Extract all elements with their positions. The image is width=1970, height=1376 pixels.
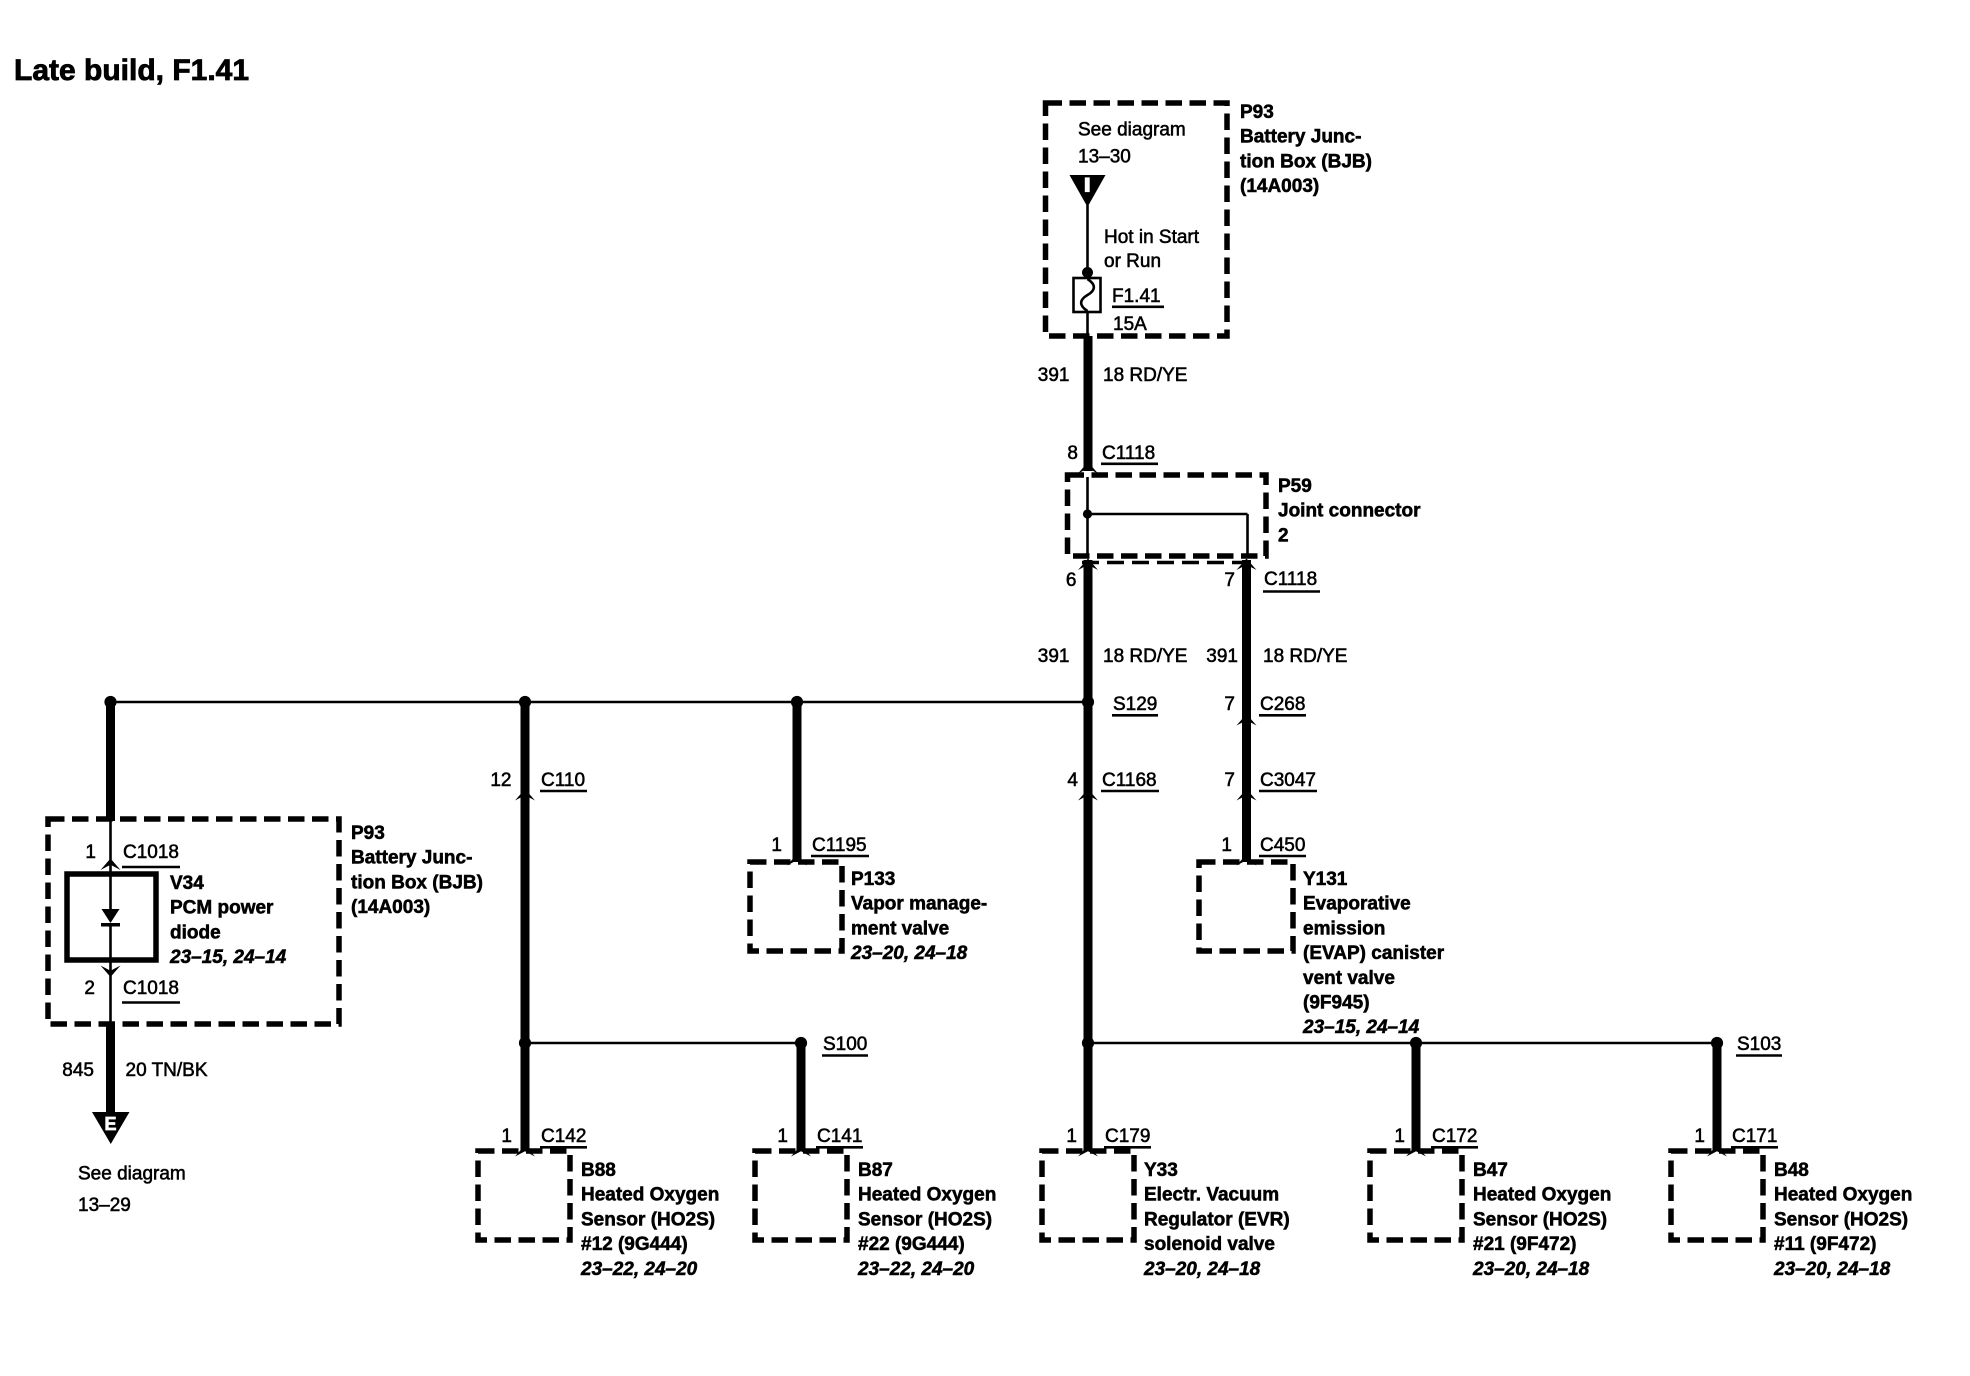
svg-text:391: 391 (1206, 646, 1238, 667)
svg-text:12: 12 (490, 770, 511, 791)
box B48 HO2S #11 (dashed) (1671, 1151, 1763, 1240)
label pin 8 connector C1118 (1067, 443, 1158, 464)
node inside P59 (1083, 509, 1092, 518)
svg-text:13–29: 13–29 (78, 1195, 131, 1216)
note See diagram 13-30 (1078, 120, 1186, 168)
wire out of diode (109, 927, 112, 1027)
svg-text:7: 7 (1224, 694, 1235, 715)
svg-text:7: 7 (1224, 570, 1235, 591)
svg-text:Heated Oxygen: Heated Oxygen (1473, 1185, 1611, 1206)
wire fuse to box bottom (1086, 312, 1089, 336)
box B88 HO2S #12 (dashed) (478, 1151, 570, 1240)
svg-text:2: 2 (84, 978, 95, 999)
splice S103 (1711, 1034, 1782, 1056)
connector C1018 pin 2 (arrow down) (84, 966, 180, 1003)
note Hot in Start or Run (1104, 227, 1200, 272)
label pin 7 C1118 (1224, 569, 1320, 592)
svg-text:8: 8 (1067, 443, 1078, 464)
svg-text:C142: C142 (541, 1126, 586, 1147)
wire triangle to fuse (1086, 205, 1089, 278)
svg-text:Evaporative: Evaporative (1303, 894, 1411, 915)
svg-text:C1018: C1018 (123, 842, 179, 863)
box Y131 EVAP canister vent valve (dashed) (1199, 862, 1293, 951)
node S103 left (1082, 1037, 1094, 1049)
connector C268 pin 7 (1224, 694, 1306, 726)
diode V34 symbol (101, 909, 120, 927)
svg-text:#21 (9F472): #21 (9F472) (1473, 1234, 1577, 1255)
box P59 Joint connector (dashed) (1068, 475, 1267, 556)
svg-text:845: 845 (62, 1060, 94, 1081)
svg-text:23–20, 24–18: 23–20, 24–18 (1143, 1259, 1261, 1280)
wire splice bus S100 (525, 1042, 801, 1045)
svg-text:#12 (9G444): #12 (9G444) (581, 1234, 688, 1255)
svg-text:F1.41: F1.41 (1112, 286, 1161, 307)
connector C110 pin 12 (490, 770, 587, 801)
label P93 BJB (top) (1240, 102, 1372, 197)
label circuit 391 18 RD/YE (1038, 365, 1188, 386)
svg-text:Y131: Y131 (1303, 869, 1348, 890)
svg-text:15A: 15A (1113, 314, 1147, 335)
svg-text:Joint connector: Joint connector (1278, 501, 1421, 522)
label P133 (850, 869, 987, 964)
svg-text:C1018: C1018 (123, 978, 179, 999)
box B47 HO2S #21 (dashed) (1370, 1151, 1462, 1240)
svg-text:18 RD/YE: 18 RD/YE (1103, 646, 1187, 667)
wire splice bus S103 (1088, 1042, 1717, 1045)
wire C1195 branch (down to P133) (793, 704, 802, 862)
svg-text:1: 1 (1694, 1126, 1705, 1147)
svg-text:See diagram: See diagram (78, 1164, 186, 1185)
svg-text:C110: C110 (541, 770, 585, 791)
svg-text:Battery Junc-: Battery Junc- (351, 848, 472, 869)
wire inside BJB to V34 (109, 821, 112, 874)
note See diagram 13-29 (78, 1164, 186, 1217)
connector C172 pin 1 (1394, 1126, 1478, 1157)
svg-text:(14A003): (14A003) (351, 897, 430, 918)
svg-text:tion Box (BJB): tion Box (BJB) (1240, 151, 1372, 172)
svg-text:Sensor (HO2S): Sensor (HO2S) (581, 1209, 715, 1230)
box Y33 EVR solenoid valve (dashed) (1042, 1151, 1134, 1240)
junction dot at fuse top (1082, 267, 1093, 278)
label circuit 391 18 RD/YE (right) (1206, 646, 1347, 667)
wire C110 branch (down to B88) (521, 704, 530, 1151)
svg-text:20 TN/BK: 20 TN/BK (126, 1060, 208, 1081)
svg-text:#22 (9G444): #22 (9G444) (858, 1234, 965, 1255)
wire B87 branch (797, 1045, 806, 1151)
svg-text:Sensor (HO2S): Sensor (HO2S) (858, 1209, 992, 1230)
node at B47 branch (1410, 1037, 1422, 1049)
label Y131 (1302, 869, 1445, 1038)
wire into diode (109, 876, 112, 910)
label V34 PCM power diode (169, 873, 287, 968)
connector arrow pin 7 (1237, 559, 1257, 571)
box P133 Vapor management valve (dashed) (750, 862, 842, 951)
svg-text:23–22, 24–20: 23–22, 24–20 (857, 1259, 975, 1280)
wire right 391 (P59 pin7 down to Y131) (1242, 560, 1251, 862)
svg-text:23–15, 24–14: 23–15, 24–14 (1302, 1017, 1420, 1038)
connector arrow pin 6 (1078, 559, 1098, 571)
svg-text:Battery Junc-: Battery Junc- (1240, 127, 1361, 148)
connector arrow C1118 pin 8 (1078, 462, 1098, 474)
svg-text:Sensor (HO2S): Sensor (HO2S) (1774, 1209, 1908, 1230)
svg-text:S103: S103 (1737, 1034, 1781, 1055)
svg-text:or Run: or Run (1104, 251, 1161, 272)
svg-text:Heated Oxygen: Heated Oxygen (1774, 1185, 1912, 1206)
svg-text:P93: P93 (351, 823, 385, 844)
svg-text:P93: P93 (1240, 102, 1274, 123)
svg-text:solenoid valve: solenoid valve (1144, 1234, 1275, 1255)
svg-text:23–22, 24–20: 23–22, 24–20 (580, 1259, 698, 1280)
bus line below P59 (1082, 561, 1255, 565)
svg-text:C3047: C3047 (1260, 770, 1316, 791)
svg-text:(14A003): (14A003) (1240, 176, 1319, 197)
svg-text:1: 1 (1394, 1126, 1405, 1147)
connector C1168 pin 4 (1067, 770, 1159, 801)
label B87 (857, 1160, 996, 1280)
connector C171 pin 1 (1694, 1126, 1778, 1157)
svg-text:Late build, F1.41: Late build, F1.41 (14, 54, 249, 87)
svg-text:emission: emission (1303, 918, 1385, 939)
svg-text:391: 391 (1038, 646, 1070, 667)
svg-text:Heated Oxygen: Heated Oxygen (581, 1185, 719, 1206)
box P93 Battery Junction Box (top, dashed) (1046, 103, 1228, 336)
box P93 Battery Junction Box (left, dashed) (48, 819, 339, 1024)
svg-text:2: 2 (1278, 525, 1289, 546)
svg-text:diode: diode (170, 922, 221, 943)
wire B48 branch (1713, 1045, 1722, 1151)
svg-text:PCM power: PCM power (170, 898, 274, 919)
svg-text:vent valve: vent valve (1303, 968, 1395, 989)
wire left main 391 (P59 pin6 down to Y33) (1084, 560, 1093, 1151)
connector C142 pin 1 (501, 1126, 587, 1157)
box B87 HO2S #22 (dashed) (755, 1151, 847, 1240)
svg-text:Electr. Vacuum: Electr. Vacuum (1144, 1185, 1279, 1206)
splice S129 (1082, 694, 1158, 715)
label F1.41 / 15A (1112, 286, 1164, 335)
connector C179 pin 1 (1066, 1126, 1151, 1157)
svg-text:(9F945): (9F945) (1303, 993, 1370, 1014)
label circuit 845 20 TN/BK (62, 1060, 208, 1081)
svg-text:C1118: C1118 (1264, 569, 1317, 590)
svg-text:23–15, 24–14: 23–15, 24–14 (169, 947, 287, 968)
svg-text:ment valve: ment valve (851, 918, 949, 939)
svg-text:C1168: C1168 (1102, 770, 1157, 791)
connector C3047 pin 7 (1224, 770, 1317, 801)
svg-text:Sensor (HO2S): Sensor (HO2S) (1473, 1209, 1607, 1230)
wire B47 branch (1412, 1045, 1421, 1151)
svg-text:7: 7 (1224, 770, 1235, 791)
svg-text:B88: B88 (581, 1160, 616, 1181)
svg-text:S129: S129 (1113, 694, 1157, 715)
svg-text:E: E (104, 1114, 116, 1134)
label P93 BJB (left) (351, 823, 483, 918)
node at C1195 branch (791, 696, 803, 708)
svg-text:Hot in Start: Hot in Start (1104, 227, 1200, 248)
splice S100 (795, 1034, 868, 1056)
svg-text:Y33: Y33 (1144, 1160, 1178, 1181)
svg-text:1: 1 (1066, 1126, 1077, 1147)
svg-text:13–30: 13–30 (1078, 147, 1131, 168)
svg-text:C1195: C1195 (812, 835, 867, 856)
svg-text:B87: B87 (858, 1160, 893, 1181)
svg-text:V34: V34 (170, 873, 204, 894)
svg-text:391: 391 (1038, 365, 1070, 386)
svg-text:C1118: C1118 (1102, 443, 1155, 464)
svg-text:18 RD/YE: 18 RD/YE (1263, 646, 1347, 667)
label B88 (580, 1160, 719, 1280)
svg-text:C172: C172 (1432, 1126, 1477, 1147)
svg-text:6: 6 (1066, 570, 1077, 591)
ground symbol E (92, 1112, 130, 1144)
svg-text:See diagram: See diagram (1078, 120, 1186, 141)
label circuit 391 18 RD/YE (left) (1038, 646, 1188, 667)
svg-text:tion Box (BJB): tion Box (BJB) (351, 872, 483, 893)
svg-text:23–20, 24–18: 23–20, 24–18 (1472, 1259, 1590, 1280)
wire inside P59 (1088, 477, 1248, 558)
wire left branch down to BJB (106, 704, 115, 821)
svg-text:(EVAP) canister: (EVAP) canister (1303, 943, 1445, 964)
svg-text:1: 1 (777, 1126, 788, 1147)
svg-text:23–20, 24–18: 23–20, 24–18 (850, 943, 968, 964)
svg-text:C268: C268 (1260, 694, 1305, 715)
svg-text:S100: S100 (823, 1034, 867, 1055)
svg-text:B47: B47 (1473, 1160, 1508, 1181)
wire splice bus S129 (horizontal) (111, 701, 1089, 704)
svg-text:1: 1 (85, 842, 96, 863)
svg-text:C450: C450 (1260, 835, 1305, 856)
svg-text:C171: C171 (1732, 1126, 1777, 1147)
svg-text:Vapor manage-: Vapor manage- (851, 894, 987, 915)
svg-text:P133: P133 (851, 869, 895, 890)
svg-text:Heated Oxygen: Heated Oxygen (858, 1185, 996, 1206)
svg-text:1: 1 (771, 835, 782, 856)
node at C110 branch (519, 696, 531, 708)
svg-text:P59: P59 (1278, 476, 1312, 497)
node S100 left (519, 1037, 531, 1049)
svg-text:#11 (9F472): #11 (9F472) (1774, 1234, 1876, 1255)
label P59 Joint connector 2 (1278, 476, 1421, 546)
svg-text:C179: C179 (1105, 1126, 1150, 1147)
svg-text:C141: C141 (817, 1126, 862, 1147)
svg-text:1: 1 (1221, 835, 1232, 856)
node at left end (104, 696, 116, 708)
svg-text:23–20, 24–18: 23–20, 24–18 (1773, 1259, 1891, 1280)
wire 845 20 TN/BK (106, 1024, 115, 1113)
connector C1195 pin 1 (771, 835, 869, 866)
connector C1018 pin 1 (85, 842, 180, 870)
svg-text:B48: B48 (1774, 1160, 1809, 1181)
box V34 (solid) (67, 874, 156, 960)
label Y33 (1143, 1160, 1290, 1280)
connector C450 pin 1 (1221, 835, 1306, 866)
connector C141 pin 1 (777, 1126, 863, 1157)
svg-text:Regulator (EVR): Regulator (EVR) (1144, 1209, 1290, 1230)
label B48 (1773, 1160, 1912, 1280)
svg-text:4: 4 (1067, 770, 1078, 791)
wire 391 18 RD/YE (BJB to P59) (1084, 336, 1093, 471)
fuse F1.41 15A (1074, 278, 1101, 312)
label B47 (1472, 1160, 1611, 1280)
svg-text:18 RD/YE: 18 RD/YE (1103, 365, 1187, 386)
power symbol I (hot feed triangle) (1070, 175, 1106, 207)
svg-text:1: 1 (501, 1126, 512, 1147)
